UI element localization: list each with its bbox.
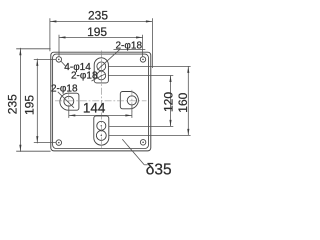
svg-text:195: 195 [22, 95, 36, 115]
svg-text:235: 235 [88, 8, 108, 22]
svg-text:2-φ18: 2-φ18 [51, 84, 78, 95]
svg-text:2-φ18: 2-φ18 [116, 40, 143, 51]
svg-text:δ35: δ35 [146, 161, 172, 176]
svg-text:195: 195 [87, 25, 107, 39]
svg-text:235: 235 [6, 94, 20, 114]
svg-text:144: 144 [83, 101, 106, 116]
svg-text:2-φ18: 2-φ18 [71, 71, 98, 82]
svg-text:160: 160 [176, 92, 190, 112]
svg-text:120: 120 [161, 92, 175, 112]
